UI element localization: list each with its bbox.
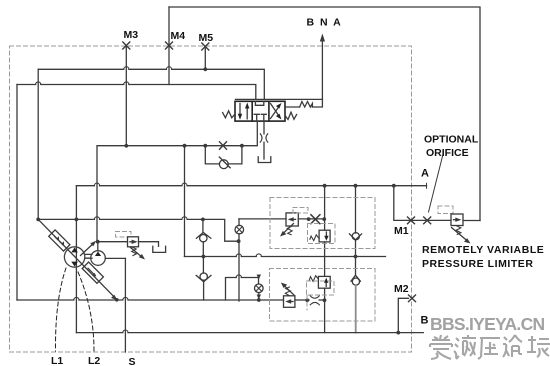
dashed case drain leader L2 [78, 272, 94, 351]
port X M5 [202, 43, 209, 50]
port X M3 [123, 42, 130, 49]
svg-text:S: S [129, 356, 136, 366]
valve right spring [285, 112, 297, 119]
svg-text:PRESSURE LIMITER: PRESSURE LIMITER [422, 258, 533, 270]
svg-text:L1: L1 [51, 355, 63, 366]
char ye [454, 338, 459, 359]
char ai [432, 335, 450, 340]
drive shaft coupling [85, 254, 92, 258]
dashed pilot stub at WW2 [306, 295, 308, 310]
charge pump circle [91, 251, 106, 266]
orifice (restrictor) on tank drain [260, 134, 268, 142]
wire A-side rail y=185.7 [76, 185, 426, 187]
dashed pilot box WW1 [308, 224, 336, 244]
char ya [478, 338, 500, 359]
tank symbol at charge relief [153, 246, 166, 252]
wire M3 riser [125, 46, 127, 146]
wire lower rail y=84.5 to valve [17, 85, 256, 100]
limiter spring and remote adjust arrow [456, 226, 461, 235]
dashed pilot box WW2 [307, 281, 335, 295]
servo cylinder 1 [49, 230, 70, 251]
char lun [503, 337, 509, 357]
check valve ball and seat in bypass [219, 160, 228, 169]
check valve CV2 (makeup, lower) [202, 257, 204, 274]
wire centre column x=324.6 [324, 186, 326, 333]
relief valve 1 (high pressure A) [239, 218, 286, 220]
wire upper rail y=69 to valve [38, 69, 264, 99]
svg-text:ORIFICE: ORIFICE [426, 147, 469, 159]
node junctions on drain line [124, 144, 128, 148]
svg-text:OPTIONAL: OPTIONAL [424, 134, 479, 146]
svg-text:M4: M4 [171, 30, 186, 42]
port X M2 [409, 295, 416, 302]
svg-text:BBS.IYEYA.CN: BBS.IYEYA.CN [430, 314, 545, 334]
valve right cell crossed arrows [271, 104, 280, 117]
svg-text:M2: M2 [394, 283, 409, 295]
check valve CV1 (makeup, upper) [202, 219, 204, 233]
char tan [527, 336, 536, 352]
pilot valve WW2 (pressure cutoff B) [318, 276, 330, 288]
servo cylinder 2 [82, 262, 103, 283]
inner dashed box A control [116, 198, 454, 322]
port X M1 [408, 217, 415, 224]
wire valve right drain to tank through orifice [263, 121, 265, 134]
svg-text:M5: M5 [199, 32, 214, 44]
dashed pilot cap at charge relief [116, 232, 132, 238]
svg-text:REMOTELY VARIABLE: REMOTELY VARIABLE [422, 244, 544, 256]
pump flow triangles [71, 248, 78, 253]
wire valve left drain down and across y=145.7 [97, 121, 257, 242]
wire left outer drop x=17 [16, 85, 18, 301]
wire M5 stub [204, 47, 206, 70]
wire bottom rail y=332.6 [76, 332, 423, 334]
wire branch with jog to relief A orifice [238, 219, 240, 226]
valve pilot loop with spring to A riser [285, 106, 300, 108]
orifice (circle-cross) A [235, 225, 244, 234]
dashed pilot cap above relief 1 [293, 208, 308, 214]
wire S line [124, 258, 126, 352]
X plug on pilot line [311, 215, 320, 224]
main pump circle [64, 247, 84, 267]
wire gray drop below CV4 [355, 285, 357, 332]
orifice X plug on drain line [220, 142, 227, 149]
wire charge pump top to relief [97, 242, 99, 251]
watermark chinese characters [430, 335, 550, 359]
wire left drop x=38 [37, 69, 39, 219]
inner dashed box B control [270, 269, 376, 322]
check valve CV3 (A feed) [355, 186, 357, 233]
valve centre cell notch [255, 101, 263, 105]
node junction at (38.2,219.4) [36, 218, 40, 222]
pilot valve WW1 (pressure cutoff A) [319, 230, 330, 242]
wire M4 riser [168, 7, 170, 85]
op directional control valve body (3-position) [235, 101, 285, 121]
variable displacement arrow (long diagonal) [38, 219, 114, 297]
svg-text:B N A: B N A [307, 17, 343, 29]
svg-text:B: B [421, 315, 429, 327]
wire charge pump to S line [105, 257, 125, 259]
remote pressure limiter valve [451, 214, 463, 226]
swash arrow NE [81, 243, 94, 255]
wire bottom shared line y=300 [17, 299, 284, 301]
orifice on B pilot line [310, 296, 319, 305]
svg-text:L2: L2 [88, 355, 100, 366]
wire M2 stub [398, 298, 408, 332]
wire feed rail y=219.4 [38, 219, 239, 241]
svg-text:M1: M1 [394, 225, 409, 237]
valve left spring [223, 111, 235, 118]
wire mid rail y=256.5 [184, 256, 385, 258]
wire x=184.5 drop [184, 146, 186, 257]
orifice (circle-cross) B [254, 284, 263, 293]
leader line for optional orifice [429, 153, 444, 212]
wire branch B lower loop [226, 276, 259, 300]
valve centre cell blocked ports (T symbols) [254, 114, 266, 121]
wire top supply line from M4 corner to right side [169, 7, 480, 221]
port X optional orifice [424, 217, 431, 224]
wire left column x=76 [75, 186, 77, 333]
charge relief spring and arrow [132, 247, 137, 256]
svg-text:A: A [421, 168, 429, 180]
valve left cell arrows [239, 104, 241, 116]
relief valve 1 spring and adjust arrow [287, 226, 292, 234]
relief valve 2 spring and adjust arrow [285, 287, 290, 296]
dashed case drain leader L1 [55, 268, 66, 351]
svg-text:M3: M3 [124, 29, 139, 41]
check valve CV4 (B feed) [355, 257, 357, 276]
dashed pilot cap at pressure limiter [438, 206, 453, 214]
valve top rail [236, 98, 323, 100]
charge relief valve [128, 237, 139, 247]
outer dashed enclosure (pump housing boundary) [10, 46, 412, 352]
tank symbol [258, 157, 271, 163]
check valve bypass loop under X plug [205, 146, 242, 164]
port X M4 [166, 42, 173, 49]
wire A-port riser with arrow to B N A [321, 41, 323, 99]
wire M1 branch from A rail [394, 186, 451, 221]
relief valve 2 (high pressure B) [284, 296, 295, 308]
